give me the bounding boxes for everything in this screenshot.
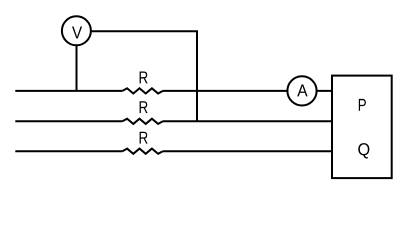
wire bottom branch from resistor to box (163, 150, 333, 152)
wire from ammeter to box P terminal (317, 90, 333, 92)
wire middle branch from resistor to box (163, 120, 333, 122)
terminal label P (359, 99, 366, 111)
terminal label Q (358, 143, 369, 158)
ammeter A (287, 76, 316, 105)
resistor R (top branch) (122, 71, 162, 93)
wire from voltmeter right across and down to middle branch (91, 31, 197, 121)
wire top branch from resistor to ammeter (163, 90, 288, 92)
voltmeter V (62, 16, 91, 45)
wire top branch left segment (15, 90, 122, 92)
wire bottom branch left segment (15, 150, 122, 152)
component box (unknown network) (332, 76, 392, 179)
resistor R (middle branch) (122, 101, 162, 124)
wire middle branch left segment (15, 120, 122, 122)
wire from voltmeter bottom down to top branch node (76, 45, 78, 91)
resistor R (bottom branch) (122, 132, 162, 154)
